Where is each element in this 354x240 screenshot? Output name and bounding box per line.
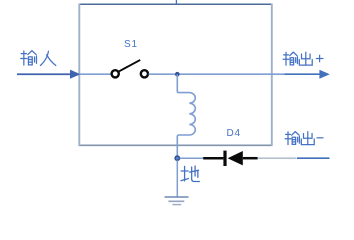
diode D4 — [203, 151, 257, 166]
wire: diode lead gray — [258, 157, 297, 159]
top pin stub — [175, 0, 177, 4]
ground — [165, 197, 189, 205]
label 输出- — [285, 132, 323, 145]
arrowhead input — [70, 70, 80, 79]
label 输出+ — [283, 52, 323, 65]
node B junction ring — [175, 156, 179, 160]
wire: ground drop — [176, 160, 178, 197]
wire: box edge to switch — [80, 73, 113, 75]
svg-text:D4: D4 — [227, 128, 241, 139]
label 输入 — [21, 51, 56, 66]
wire: node B to diode — [180, 157, 204, 159]
switch S1 — [112, 60, 148, 78]
wire: switch to output branch — [149, 73, 285, 75]
wire: input connector — [17, 73, 71, 75]
svg-text:S1: S1 — [124, 39, 138, 50]
wire: output- connector — [297, 157, 330, 159]
label 地 — [181, 166, 199, 181]
wire: output+ connector — [285, 73, 321, 75]
node A junction dot — [175, 72, 180, 77]
enclosure box — [79, 4, 273, 146]
inductor coil — [177, 74, 195, 156]
arrowhead output+ — [319, 70, 329, 79]
